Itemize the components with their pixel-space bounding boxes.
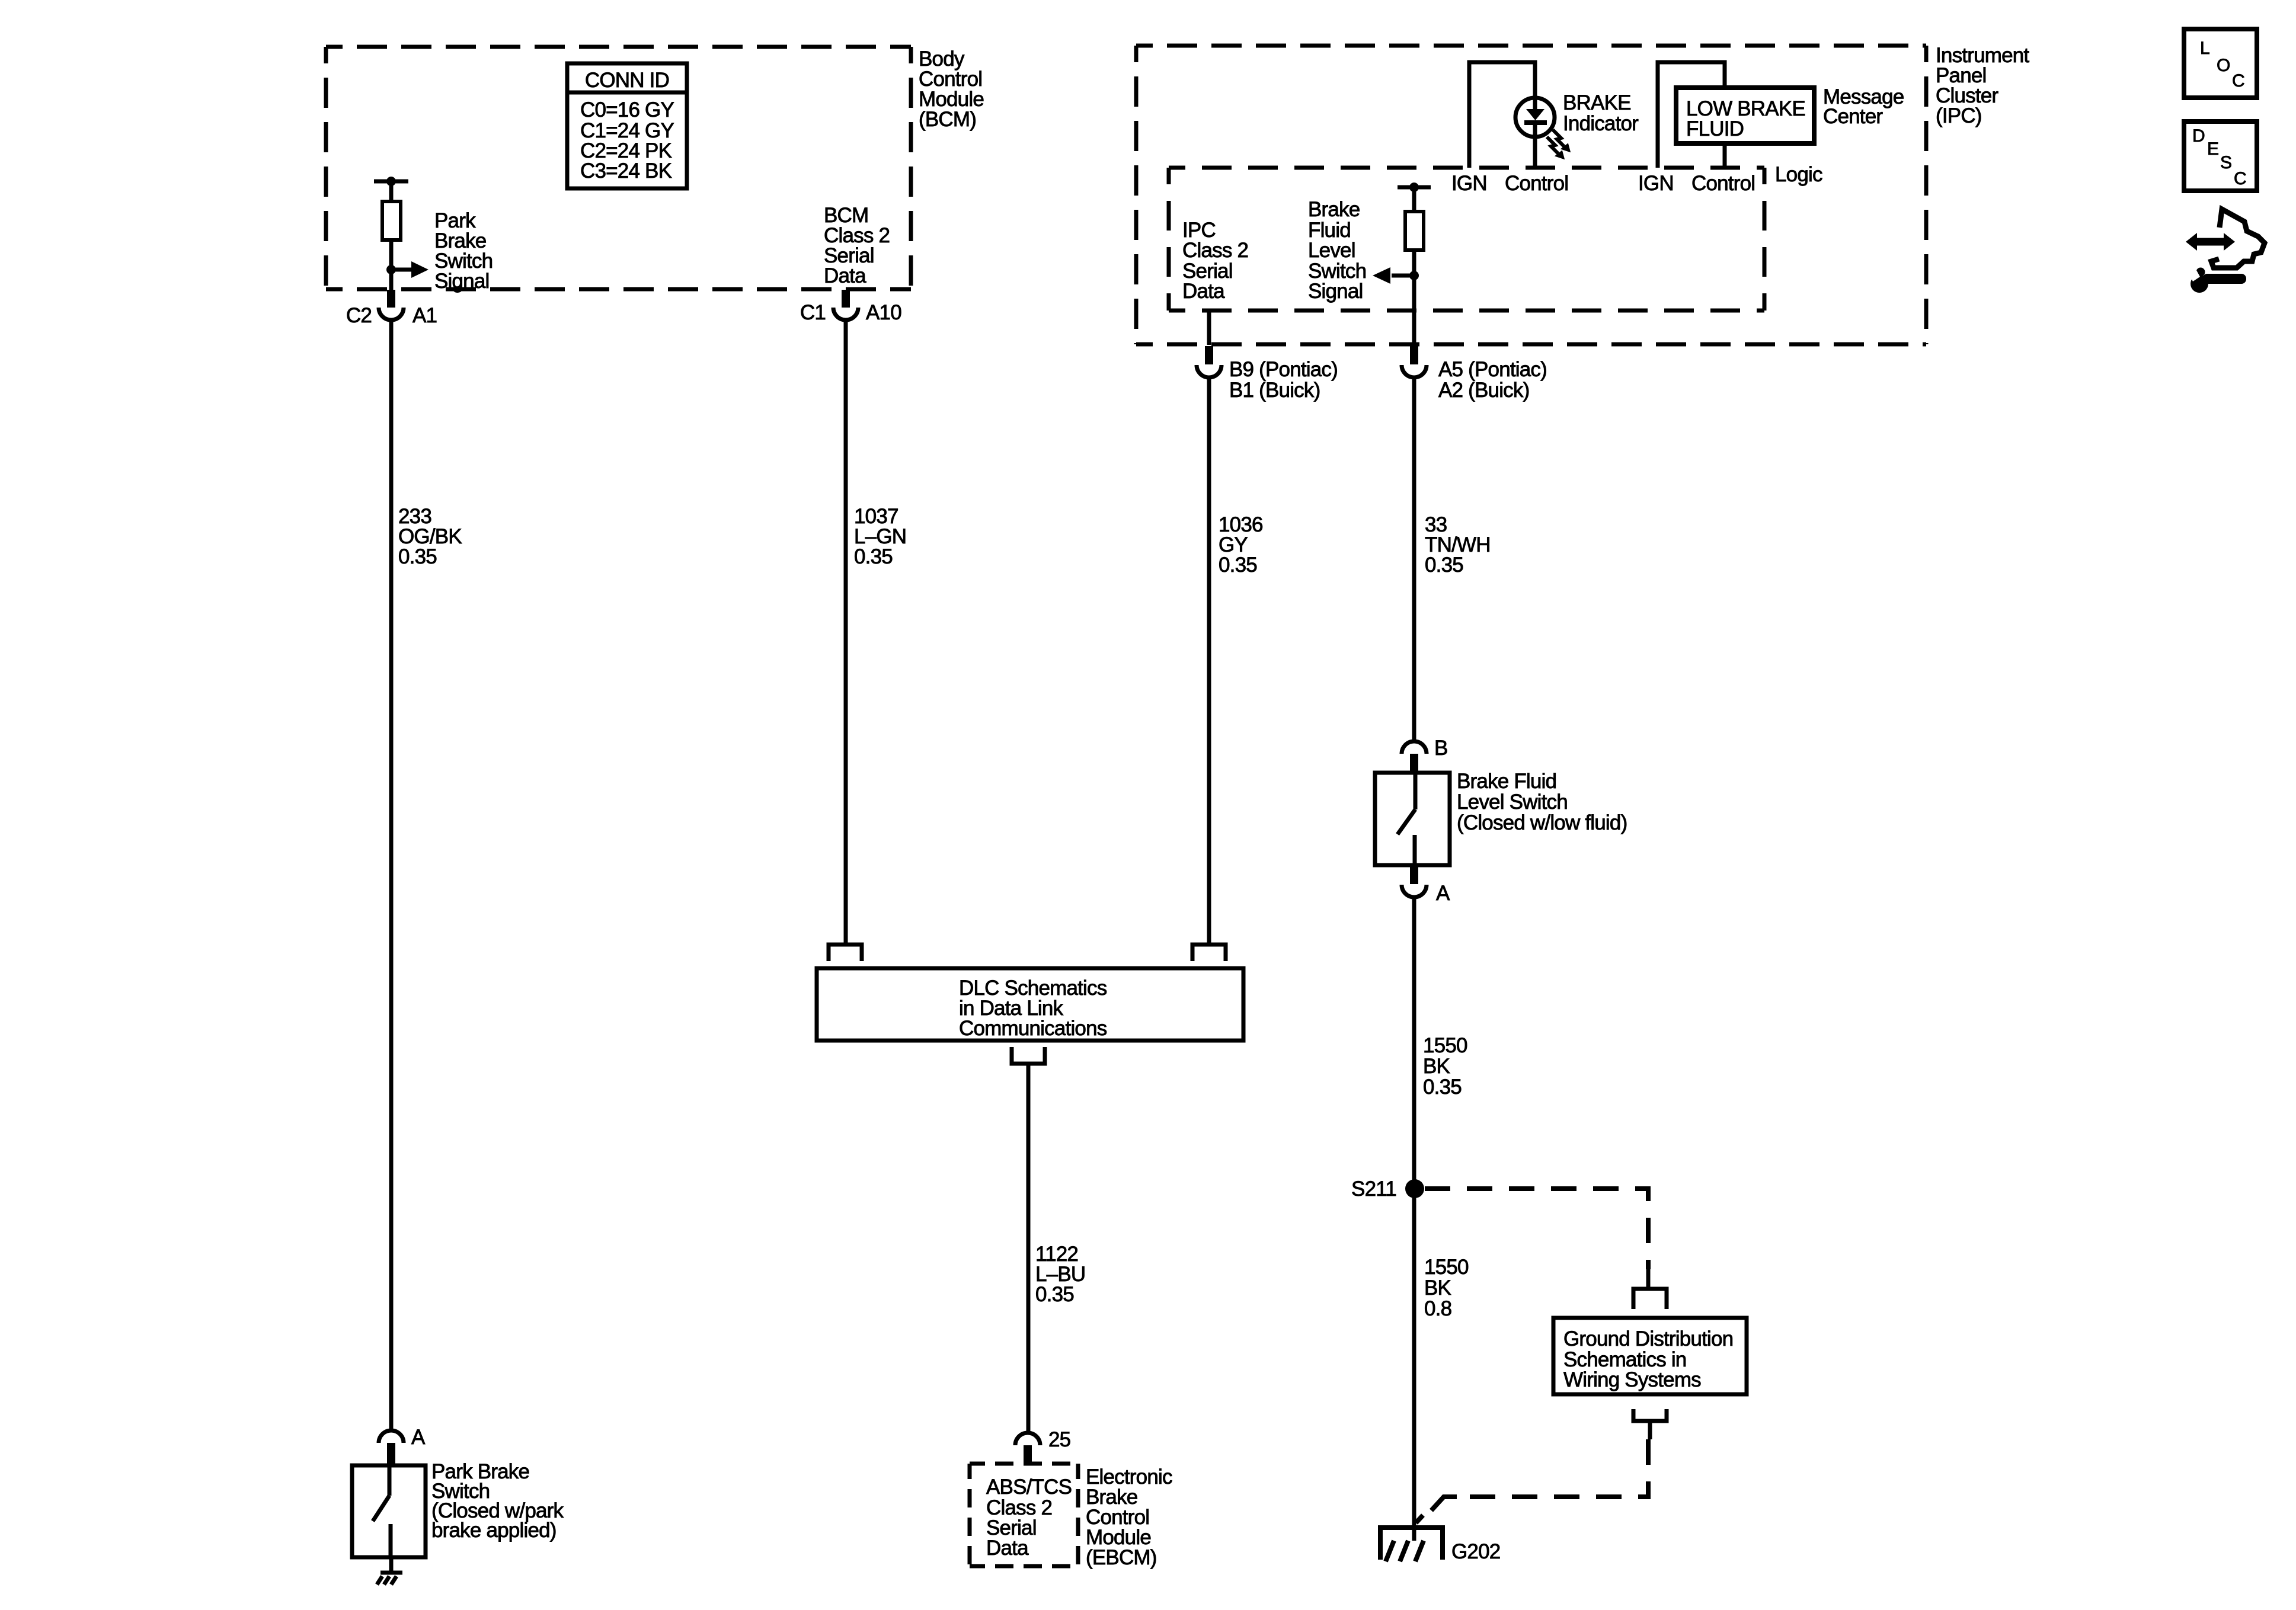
repair icon (glove with arrow and wrench) [2186,209,2265,293]
svg-text:L: L [2200,39,2210,58]
Logic label [1775,163,1822,186]
wire [389,181,394,201]
svg-text:C: C [2234,169,2247,188]
svg-text:A1: A1 [412,304,437,327]
svg-text:(IPC): (IPC) [1936,104,1982,127]
IPC logic dashed box [1169,168,1764,311]
connector B9/B1 [1197,346,1338,402]
connector B (brake fluid level switch) [1402,737,1448,773]
wire [389,240,394,290]
svg-text:Class 2: Class 2 [1182,239,1248,262]
svg-text:O: O [2217,56,2230,75]
node bar [374,180,408,184]
svg-text:S211: S211 [1351,1177,1396,1201]
BCM label [919,47,984,131]
svg-text:0.35: 0.35 [1423,1076,1462,1099]
svg-text:ABS/TCS: ABS/TCS [986,1475,1072,1499]
svg-text:Data: Data [986,1537,1029,1560]
LED emission arrows [1547,130,1569,158]
svg-text:G202: G202 [1451,1540,1500,1563]
IPC module dashed box [1136,46,1926,344]
svg-text:B: B [1434,737,1448,760]
svg-text:BK: BK [1423,1055,1450,1078]
DESC icon box [2184,121,2257,191]
IGN / Control pin labels [1451,172,1755,195]
svg-text:Data: Data [1182,280,1225,303]
Message Center label [1823,85,1904,128]
brake fluid level switch [1375,770,1627,865]
svg-text:Control: Control [1505,172,1568,195]
connector C2/A1 [346,290,437,327]
svg-text:0.35: 0.35 [1425,553,1463,577]
svg-text:Level Switch: Level Switch [1457,790,1568,814]
park brake switch signal circuit in BCM [374,177,493,293]
svg-text:Data: Data [824,264,866,287]
svg-text:(EBCM): (EBCM) [1086,1546,1157,1569]
ABS/TCS dashed box (EBCM) [970,1464,1078,1566]
svg-text:0.35: 0.35 [854,545,893,568]
svg-text:E: E [2207,139,2219,159]
resistor (BCM pull-up) [382,201,401,240]
connector C1/A10 [800,290,901,324]
wire 33 TN/WH [1414,379,1491,741]
message center supply loop [1658,62,1725,168]
ground distribution schematics box [1553,1318,1747,1394]
svg-text:1550: 1550 [1423,1034,1467,1057]
svg-text:BK: BK [1424,1276,1451,1299]
IPC class 2 wire inside box [1207,311,1211,345]
svg-text:S: S [2220,153,2232,172]
EBCM label [1086,1465,1172,1569]
svg-text:FLUID: FLUID [1686,117,1744,140]
svg-text:Indicator: Indicator [1563,112,1639,135]
svg-text:0.35: 0.35 [398,545,437,568]
BCM Class 2 Serial Data label [824,204,890,287]
svg-text:C0=16 GY: C0=16 GY [580,98,674,121]
dashed jumper to G202 [1416,1439,1648,1523]
IPC Class 2 Serial Data label [1182,219,1248,303]
IPC label [1936,44,2029,127]
park brake switch ground [377,1557,402,1585]
svg-text:CONN ID: CONN ID [585,69,669,92]
BRAKE indicator LED [1515,98,1555,137]
wire 1550 BK 0.8 label [1424,1256,1469,1320]
svg-text:25: 25 [1048,1428,1070,1451]
svg-text:Center: Center [1823,105,1883,128]
svg-text:Brake: Brake [1308,198,1360,221]
svg-text:IGN: IGN [1638,172,1674,195]
svg-text:Logic: Logic [1775,163,1822,186]
BRAKE indicator supply loop [1469,62,1535,168]
svg-text:A2 (Buick): A2 (Buick) [1438,379,1529,402]
DLC bottom bracket [1012,1047,1045,1064]
wire [1412,187,1416,212]
wire 1036 GY [1209,379,1263,945]
wrench [2191,275,2208,293]
svg-text:BRAKE: BRAKE [1563,91,1631,114]
svg-text:(Closed w/low fluid): (Closed w/low fluid) [1457,811,1627,834]
svg-text:C2: C2 [346,304,372,327]
DLC bracket right [1192,945,1226,961]
DLC schematics box [817,968,1243,1041]
wire [1412,250,1416,345]
junction dot [1409,271,1419,280]
svg-text:C1: C1 [800,301,826,324]
svg-text:1550: 1550 [1424,1256,1469,1279]
connection bracket out of ground distribution [1633,1409,1667,1439]
svg-text:Control: Control [1691,172,1755,195]
svg-text:Brake Fluid: Brake Fluid [1457,770,1556,793]
connector A5/A2 [1402,346,1547,402]
svg-text:Level: Level [1308,239,1355,262]
BCM module dashed box [326,47,911,289]
DLC bracket left [829,945,862,961]
svg-text:Ground Distribution: Ground Distribution [1563,1327,1733,1350]
svg-text:0.8: 0.8 [1424,1297,1451,1320]
CONN ID table [567,63,687,188]
ground G202 [1378,1528,1500,1563]
double arrow [2186,233,2197,251]
svg-text:IGN: IGN [1451,172,1487,195]
svg-text:C3=24 BK: C3=24 BK [580,159,672,183]
svg-text:A: A [411,1426,426,1449]
node bar [1398,185,1431,190]
splice S211 [1351,1177,1424,1201]
node dot [386,177,396,186]
brake fluid level switch signal circuit in IPC [1373,183,1431,345]
LOW BRAKE FLUID box [1676,88,1814,143]
Brake Fluid Level Switch Signal label [1308,198,1366,303]
svg-text:A5 (Pontiac): A5 (Pontiac) [1438,358,1547,381]
svg-text:D: D [2192,126,2205,146]
svg-text:(BCM): (BCM) [919,108,976,131]
connection bracket into ground distribution [1633,1269,1667,1309]
svg-text:Signal: Signal [434,270,490,293]
svg-text:B9 (Pontiac): B9 (Pontiac) [1229,358,1338,381]
svg-text:Communications: Communications [959,1017,1107,1040]
LOC icon box [2184,29,2257,98]
svg-text:brake applied): brake applied) [431,1519,557,1542]
junction dot [386,265,396,274]
svg-text:C: C [2232,71,2245,91]
svg-text:Signal: Signal [1308,280,1363,303]
svg-text:0.35: 0.35 [1035,1283,1074,1306]
signal arrow left [1392,274,1414,278]
dashed jumper S211 to ground distribution [1425,1189,1648,1269]
BRAKE Indicator label [1563,91,1639,135]
park brake switch [352,1460,564,1557]
svg-text:A: A [1436,882,1450,905]
resistor (IPC pull-up) [1405,212,1424,250]
connector A (park brake switch) [379,1426,426,1465]
connector A (brake fluid level switch) [1402,865,1450,905]
signal arrow right [391,268,412,272]
wire 233 OG/BK [391,322,462,1430]
svg-text:0.35: 0.35 [1219,553,1257,577]
wire 1037 L-GN [846,322,906,945]
node dot [1409,183,1419,192]
wire 1550 BK 0.35 [1414,899,1467,1541]
svg-text:A10: A10 [866,301,901,324]
connector 25 (EBCM) [1015,1428,1070,1464]
svg-text:B1 (Buick): B1 (Buick) [1229,379,1320,402]
wire 1122 L-BU [1028,1064,1085,1433]
svg-text:Wiring Systems: Wiring Systems [1563,1368,1701,1391]
